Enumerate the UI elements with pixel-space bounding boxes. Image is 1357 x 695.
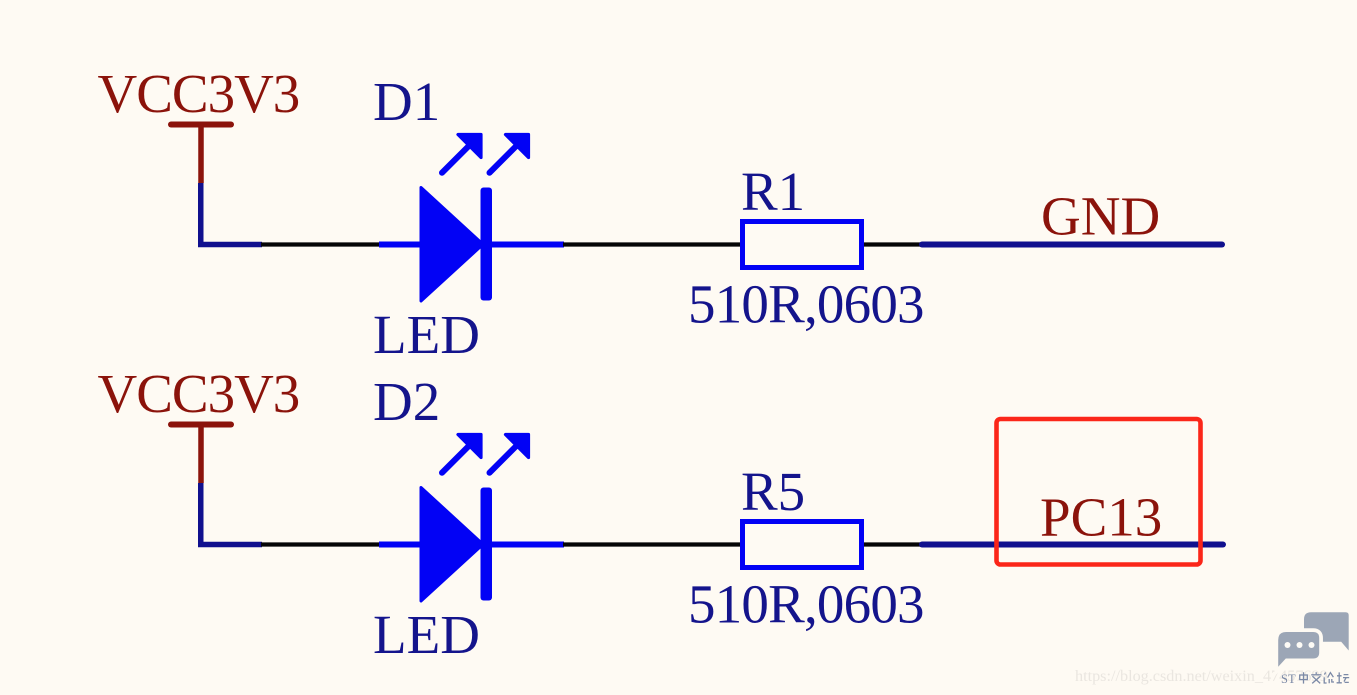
watermark chat icon front bubble	[1278, 632, 1319, 667]
svg-text:ST: ST	[1281, 672, 1296, 686]
svg-text:510R,0603: 510R,0603	[688, 574, 924, 635]
power symbol stem (row 1)	[198, 125, 204, 183]
svg-text:GND: GND	[1041, 186, 1160, 247]
svg-text:LED: LED	[373, 604, 480, 665]
watermark glyph 中	[1300, 672, 1308, 683]
watermark chat icon back bubble	[1304, 612, 1349, 650]
svg-text:R5: R5	[741, 461, 805, 522]
wire black segment (row 2, resistor to PC13 net)	[864, 542, 923, 546]
resistor R1 body	[743, 222, 862, 268]
LED D2 arrow 2	[490, 435, 529, 473]
LED D2 arrow 1	[442, 435, 481, 473]
svg-text:VCC3V3: VCC3V3	[98, 363, 300, 424]
LED D1 cathode lead	[492, 242, 564, 248]
power symbol stem (row 2)	[198, 425, 204, 483]
LED D1 triangle	[421, 188, 483, 302]
watermark glyph 文	[1311, 672, 1321, 683]
wire black segment (row 1 left)	[261, 242, 380, 246]
LED D2 triangle	[421, 488, 483, 602]
svg-text:510R,0603: 510R,0603	[688, 274, 924, 335]
wire black segment (row 1, LED to resistor)	[563, 242, 741, 246]
svg-text:R1: R1	[741, 161, 805, 222]
watermark chat icon dots	[1285, 642, 1315, 648]
resistor R5 body	[743, 522, 862, 568]
watermark glyph 论	[1324, 672, 1334, 683]
LED D2 anode lead	[379, 542, 421, 548]
LED D2 cathode bar	[481, 488, 493, 601]
wire PC13 net (row 2 navy)	[922, 542, 1223, 548]
LED D2 cathode lead	[492, 542, 564, 548]
power symbol VCC3V3 bar (row 2)	[171, 422, 231, 428]
power symbol VCC3V3 bar (row 1)	[171, 122, 231, 128]
svg-text:D1: D1	[373, 71, 440, 132]
LED D1 arrow 1	[442, 135, 481, 173]
svg-text:PC13: PC13	[1040, 487, 1162, 548]
highlight box around PC13	[997, 419, 1201, 565]
LED D1 arrow 2	[490, 135, 529, 173]
svg-text:LED: LED	[373, 304, 480, 365]
watermark glyph 坛	[1337, 672, 1350, 682]
wire black segment (row 1, resistor to GND net)	[864, 242, 923, 246]
wire GND net (row 1 navy)	[922, 242, 1222, 248]
wire black segment (row 2, LED to resistor)	[563, 542, 741, 546]
svg-text:VCC3V3: VCC3V3	[98, 63, 300, 124]
svg-text:D2: D2	[373, 371, 440, 432]
wire black segment (row 2 left)	[261, 542, 380, 546]
wire from power to LED anode (row 2, navy L-bend)	[201, 483, 262, 545]
wire from power to LED anode (row 1, navy L-bend)	[201, 183, 262, 245]
LED D1 anode lead	[379, 242, 421, 248]
LED D1 cathode bar	[481, 188, 493, 301]
